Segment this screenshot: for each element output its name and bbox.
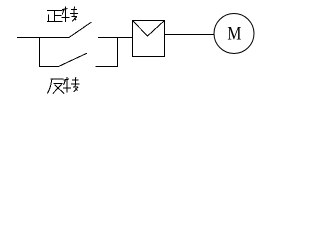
label 正转 (forward) char 转 xyxy=(62,6,79,22)
label 反转 (reverse) char 转 xyxy=(63,77,80,93)
svg-text:M: M xyxy=(227,25,241,45)
motor circle xyxy=(214,14,254,54)
label 反转 (reverse) char 反 xyxy=(47,79,64,93)
wire: left branch vertical junction xyxy=(39,37,41,67)
coil box outline xyxy=(133,21,165,57)
wire: left rail into forward contact xyxy=(17,37,70,39)
label 正转 (forward) char 正 xyxy=(47,10,63,22)
contact blade (reverse, NO switch) xyxy=(59,53,87,66)
coil box V symbol xyxy=(133,21,165,37)
wire: coil box to motor xyxy=(165,34,215,36)
contact blade (forward, NO switch) xyxy=(69,22,91,37)
wire: lower branch left lead xyxy=(39,66,59,68)
wire: right branch vertical junction xyxy=(117,37,119,67)
wire: rail from forward contact to coil box xyxy=(98,37,133,39)
wire: lower branch right lead xyxy=(96,66,118,68)
